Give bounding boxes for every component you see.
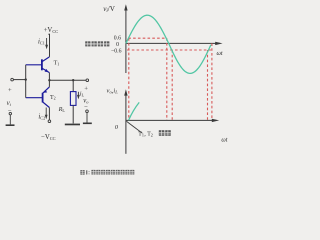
svg-text:0: 0: [116, 42, 119, 48]
svg-text:vi/V: vi/V: [103, 5, 116, 14]
svg-text:iC1: iC1: [38, 38, 45, 45]
svg-text:iC2: iC2: [38, 113, 45, 120]
svg-text:+: +: [8, 87, 12, 94]
svg-text:+VCC: +VCC: [44, 27, 59, 34]
svg-text:−VCC: −VCC: [41, 134, 56, 141]
svg-text:RL: RL: [58, 106, 66, 113]
svg-text:+: +: [84, 86, 88, 93]
svg-text:ωt: ωt: [217, 50, 223, 57]
svg-text:T1‚ T2: T1‚ T2: [138, 131, 153, 137]
svg-text:0.6: 0.6: [114, 36, 121, 42]
svg-text:T1: T1: [54, 61, 60, 67]
svg-text:−0.6: −0.6: [111, 48, 122, 54]
svg-text:ωt: ωt: [221, 137, 227, 144]
svg-text:T2: T2: [50, 95, 56, 101]
